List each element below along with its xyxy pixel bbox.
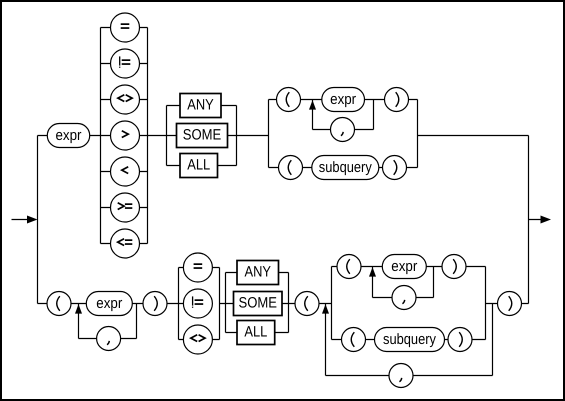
svg-text:SOME: SOME <box>239 295 278 312</box>
svg-text:ALL: ALL <box>187 157 210 174</box>
svg-text:expr: expr <box>56 127 82 144</box>
svg-text:SOME: SOME <box>183 127 222 144</box>
svg-text:expr: expr <box>330 91 356 108</box>
svg-text:expr: expr <box>391 258 417 275</box>
svg-text:subquery: subquery <box>383 331 436 348</box>
svg-text:ANY: ANY <box>245 264 272 281</box>
svg-text:expr: expr <box>96 295 122 312</box>
svg-text:ANY: ANY <box>187 97 214 114</box>
svg-text:ALL: ALL <box>244 324 267 341</box>
svg-text:subquery: subquery <box>319 159 372 176</box>
